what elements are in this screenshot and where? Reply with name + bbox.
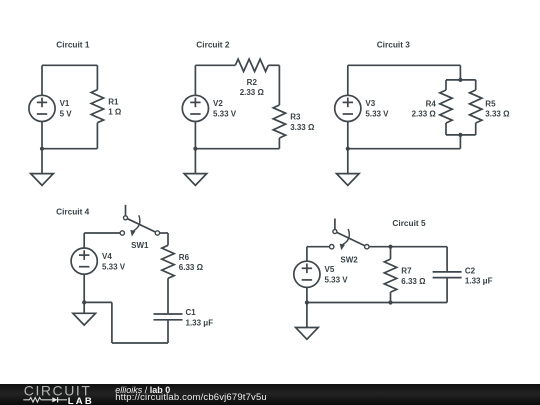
wire V3 top bbox=[347, 65, 349, 95]
voltage source V5 bbox=[294, 261, 320, 287]
resistor R3 bbox=[273, 105, 285, 138]
footer title line bbox=[115, 386, 170, 395]
wire V3 bottom bbox=[347, 121, 349, 148]
wire V1 top bbox=[41, 65, 43, 95]
resistor R5 bbox=[470, 90, 482, 123]
wire SW1 to R6 corner bbox=[160, 232, 168, 234]
wire from parallel bottom bbox=[459, 135, 461, 149]
junction node C4 bbox=[82, 300, 86, 304]
ground C5 bbox=[296, 328, 319, 340]
wire bottom C5 bbox=[307, 302, 447, 304]
wire top left C2 bbox=[195, 64, 235, 66]
CircuitLab logo bbox=[0, 384, 110, 405]
ground C3 bbox=[337, 174, 360, 186]
wire to ground C5 bbox=[306, 303, 308, 328]
wire R5 top stub bbox=[475, 80, 477, 90]
junction node C3 bbox=[346, 147, 350, 151]
wire V4 top bbox=[83, 233, 85, 248]
junction node C5 left bbox=[305, 300, 309, 304]
capacitor C2 bbox=[433, 272, 462, 278]
voltage source V2 bbox=[182, 95, 208, 121]
wire bottom vertical C4 bbox=[111, 302, 113, 343]
wire to ground C1 bbox=[41, 149, 43, 174]
resistor R7 bbox=[384, 259, 396, 292]
wire R4 top stub bbox=[445, 80, 447, 90]
junction node C5 mid bbox=[388, 300, 392, 304]
wire bottom left C4 bbox=[84, 301, 112, 303]
wire to ground C4 bbox=[83, 302, 85, 313]
wire top C1 bbox=[42, 64, 97, 66]
junction node bottom parallel bbox=[458, 133, 462, 137]
wire to ground C3 bbox=[347, 149, 349, 174]
wire R6 to C1cap bbox=[167, 278, 169, 314]
ground C2 bbox=[184, 174, 207, 186]
wire R7 top bbox=[390, 247, 392, 259]
wire V2 top bbox=[194, 65, 196, 95]
svg-text:LAB: LAB bbox=[68, 396, 94, 405]
voltage source V4 bbox=[71, 248, 97, 274]
wire V4 to SW1 bbox=[84, 232, 120, 234]
svg-text:Circuit 4: Circuit 4 bbox=[56, 207, 90, 217]
svg-text:Circuit 5: Circuit 5 bbox=[392, 218, 426, 228]
wire R3 bottom bbox=[278, 138, 280, 149]
voltage source V3 bbox=[335, 95, 361, 121]
wire R1 bottom bbox=[96, 123, 98, 149]
wire R1 top bbox=[96, 65, 98, 89]
junction node R7 top bbox=[388, 245, 392, 249]
resistor R1 bbox=[91, 90, 103, 123]
wire V4 bottom bbox=[83, 274, 85, 302]
wire C2cap bottom bbox=[446, 278, 448, 303]
capacitor C1 bbox=[154, 314, 183, 320]
wire parallel top bar bbox=[446, 79, 476, 81]
wire bottom C3 bbox=[348, 148, 461, 150]
ground C1 bbox=[31, 174, 54, 186]
resistor R2 bbox=[235, 59, 268, 71]
wire SW2 to right C5 bbox=[369, 246, 447, 248]
wire to parallel top bbox=[459, 65, 461, 80]
wire V5 top bbox=[306, 247, 308, 262]
wire bottom horizontal C4 bbox=[112, 342, 168, 344]
resistor R6 bbox=[162, 245, 174, 278]
junction node top parallel bbox=[458, 78, 462, 82]
footer url line bbox=[115, 393, 267, 403]
wire bottom C1 bbox=[42, 148, 97, 150]
wire R3 top bbox=[278, 65, 280, 105]
wire C1cap bottom bbox=[167, 320, 169, 343]
logo resistor squiggle and diode bbox=[23, 398, 52, 403]
wire top C3 bbox=[348, 64, 461, 66]
switch SW2 bbox=[330, 219, 369, 251]
wire V5 bottom bbox=[306, 287, 308, 302]
voltage source V1 bbox=[29, 95, 55, 121]
wire V1 bottom bbox=[41, 121, 43, 148]
switch SW1 bbox=[120, 205, 159, 237]
wire R7 bottom bbox=[390, 292, 392, 302]
wire R6 top bbox=[167, 233, 169, 245]
svg-text:SW2: SW2 bbox=[340, 255, 358, 264]
wire V2 bottom bbox=[194, 121, 196, 148]
svg-text:SW1: SW1 bbox=[131, 241, 149, 250]
svg-text:Circuit 2: Circuit 2 bbox=[196, 40, 230, 50]
junction node C2 bbox=[193, 147, 197, 151]
wire bottom C2 bbox=[195, 148, 279, 150]
svg-text:Circuit 3: Circuit 3 bbox=[377, 40, 411, 50]
svg-text:Circuit 1: Circuit 1 bbox=[56, 40, 90, 50]
wire V5 to SW2 bbox=[307, 246, 330, 248]
wire C2cap top bbox=[446, 247, 448, 272]
junction node C1 bbox=[40, 147, 44, 151]
wire to ground C2 bbox=[194, 149, 196, 174]
wire R5 bottom stub bbox=[475, 123, 477, 135]
wire top right C2 bbox=[268, 64, 279, 66]
wire R4 bottom stub bbox=[445, 123, 447, 135]
wire parallel bottom bar bbox=[446, 134, 476, 136]
ground C4 bbox=[73, 313, 96, 325]
resistor R4 bbox=[440, 90, 452, 123]
